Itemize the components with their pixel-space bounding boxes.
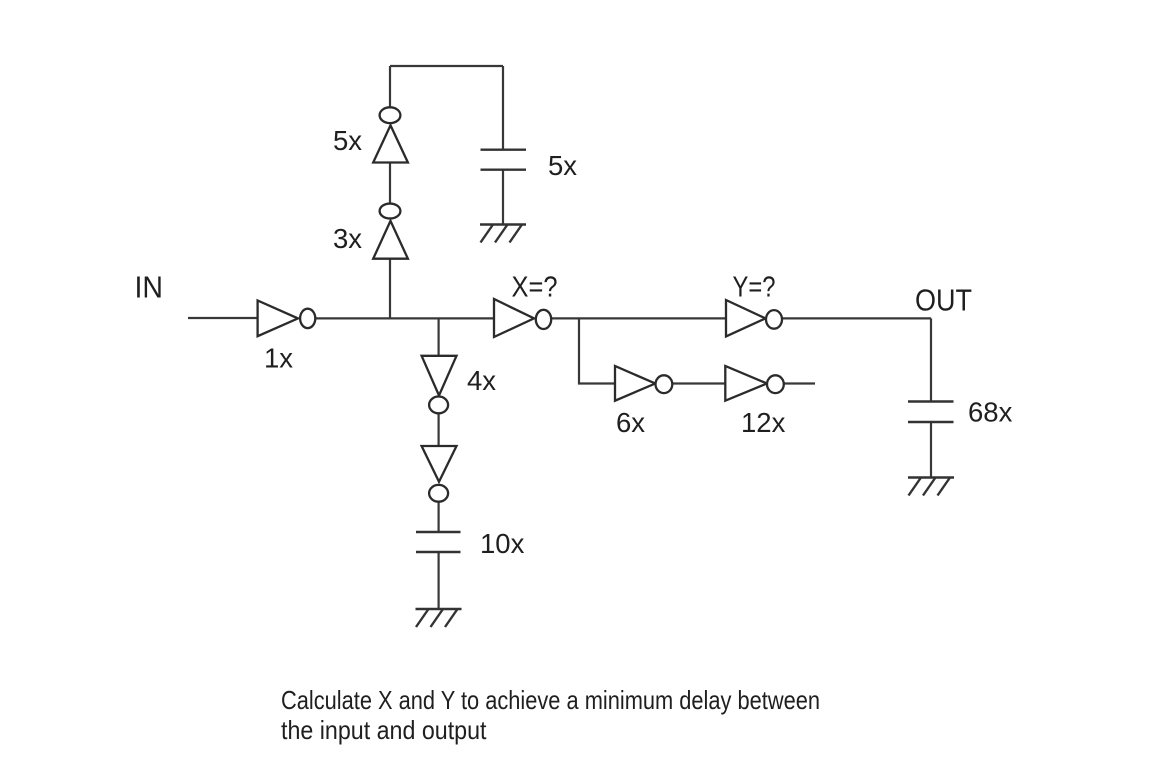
svg-text:5x: 5x [333, 125, 362, 156]
svg-text:68x: 68x [968, 397, 1013, 428]
svg-text:OUT: OUT [915, 283, 972, 318]
svg-text:the input and output: the input and output [281, 715, 487, 745]
svg-text:Calculate X and Y to achieve a: Calculate X and Y to achieve a minimum d… [281, 685, 820, 715]
svg-text:Y=?: Y=? [733, 272, 776, 304]
svg-text:5x: 5x [548, 150, 577, 181]
svg-text:X=?: X=? [512, 272, 558, 304]
svg-text:IN: IN [135, 270, 164, 305]
svg-text:3x: 3x [333, 223, 362, 254]
svg-text:4x: 4x [467, 365, 496, 396]
svg-text:12x: 12x [741, 407, 786, 438]
svg-text:1x: 1x [264, 343, 293, 374]
svg-text:6x: 6x [616, 407, 645, 438]
svg-text:10x: 10x [480, 528, 525, 559]
